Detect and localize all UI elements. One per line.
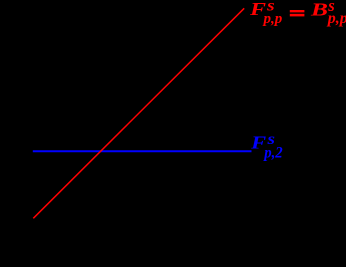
svg-text:p,p: p,p <box>326 10 346 27</box>
svg-text:B: B <box>310 0 328 20</box>
blue horizontal line (F_{p,2} locus) <box>33 150 252 152</box>
red diagonal line (F = B locus) <box>33 8 244 218</box>
svg-text:p,2: p,2 <box>262 145 282 162</box>
red label: equals sign (two bars) <box>290 10 305 12</box>
svg-text:p,p: p,p <box>262 11 283 27</box>
